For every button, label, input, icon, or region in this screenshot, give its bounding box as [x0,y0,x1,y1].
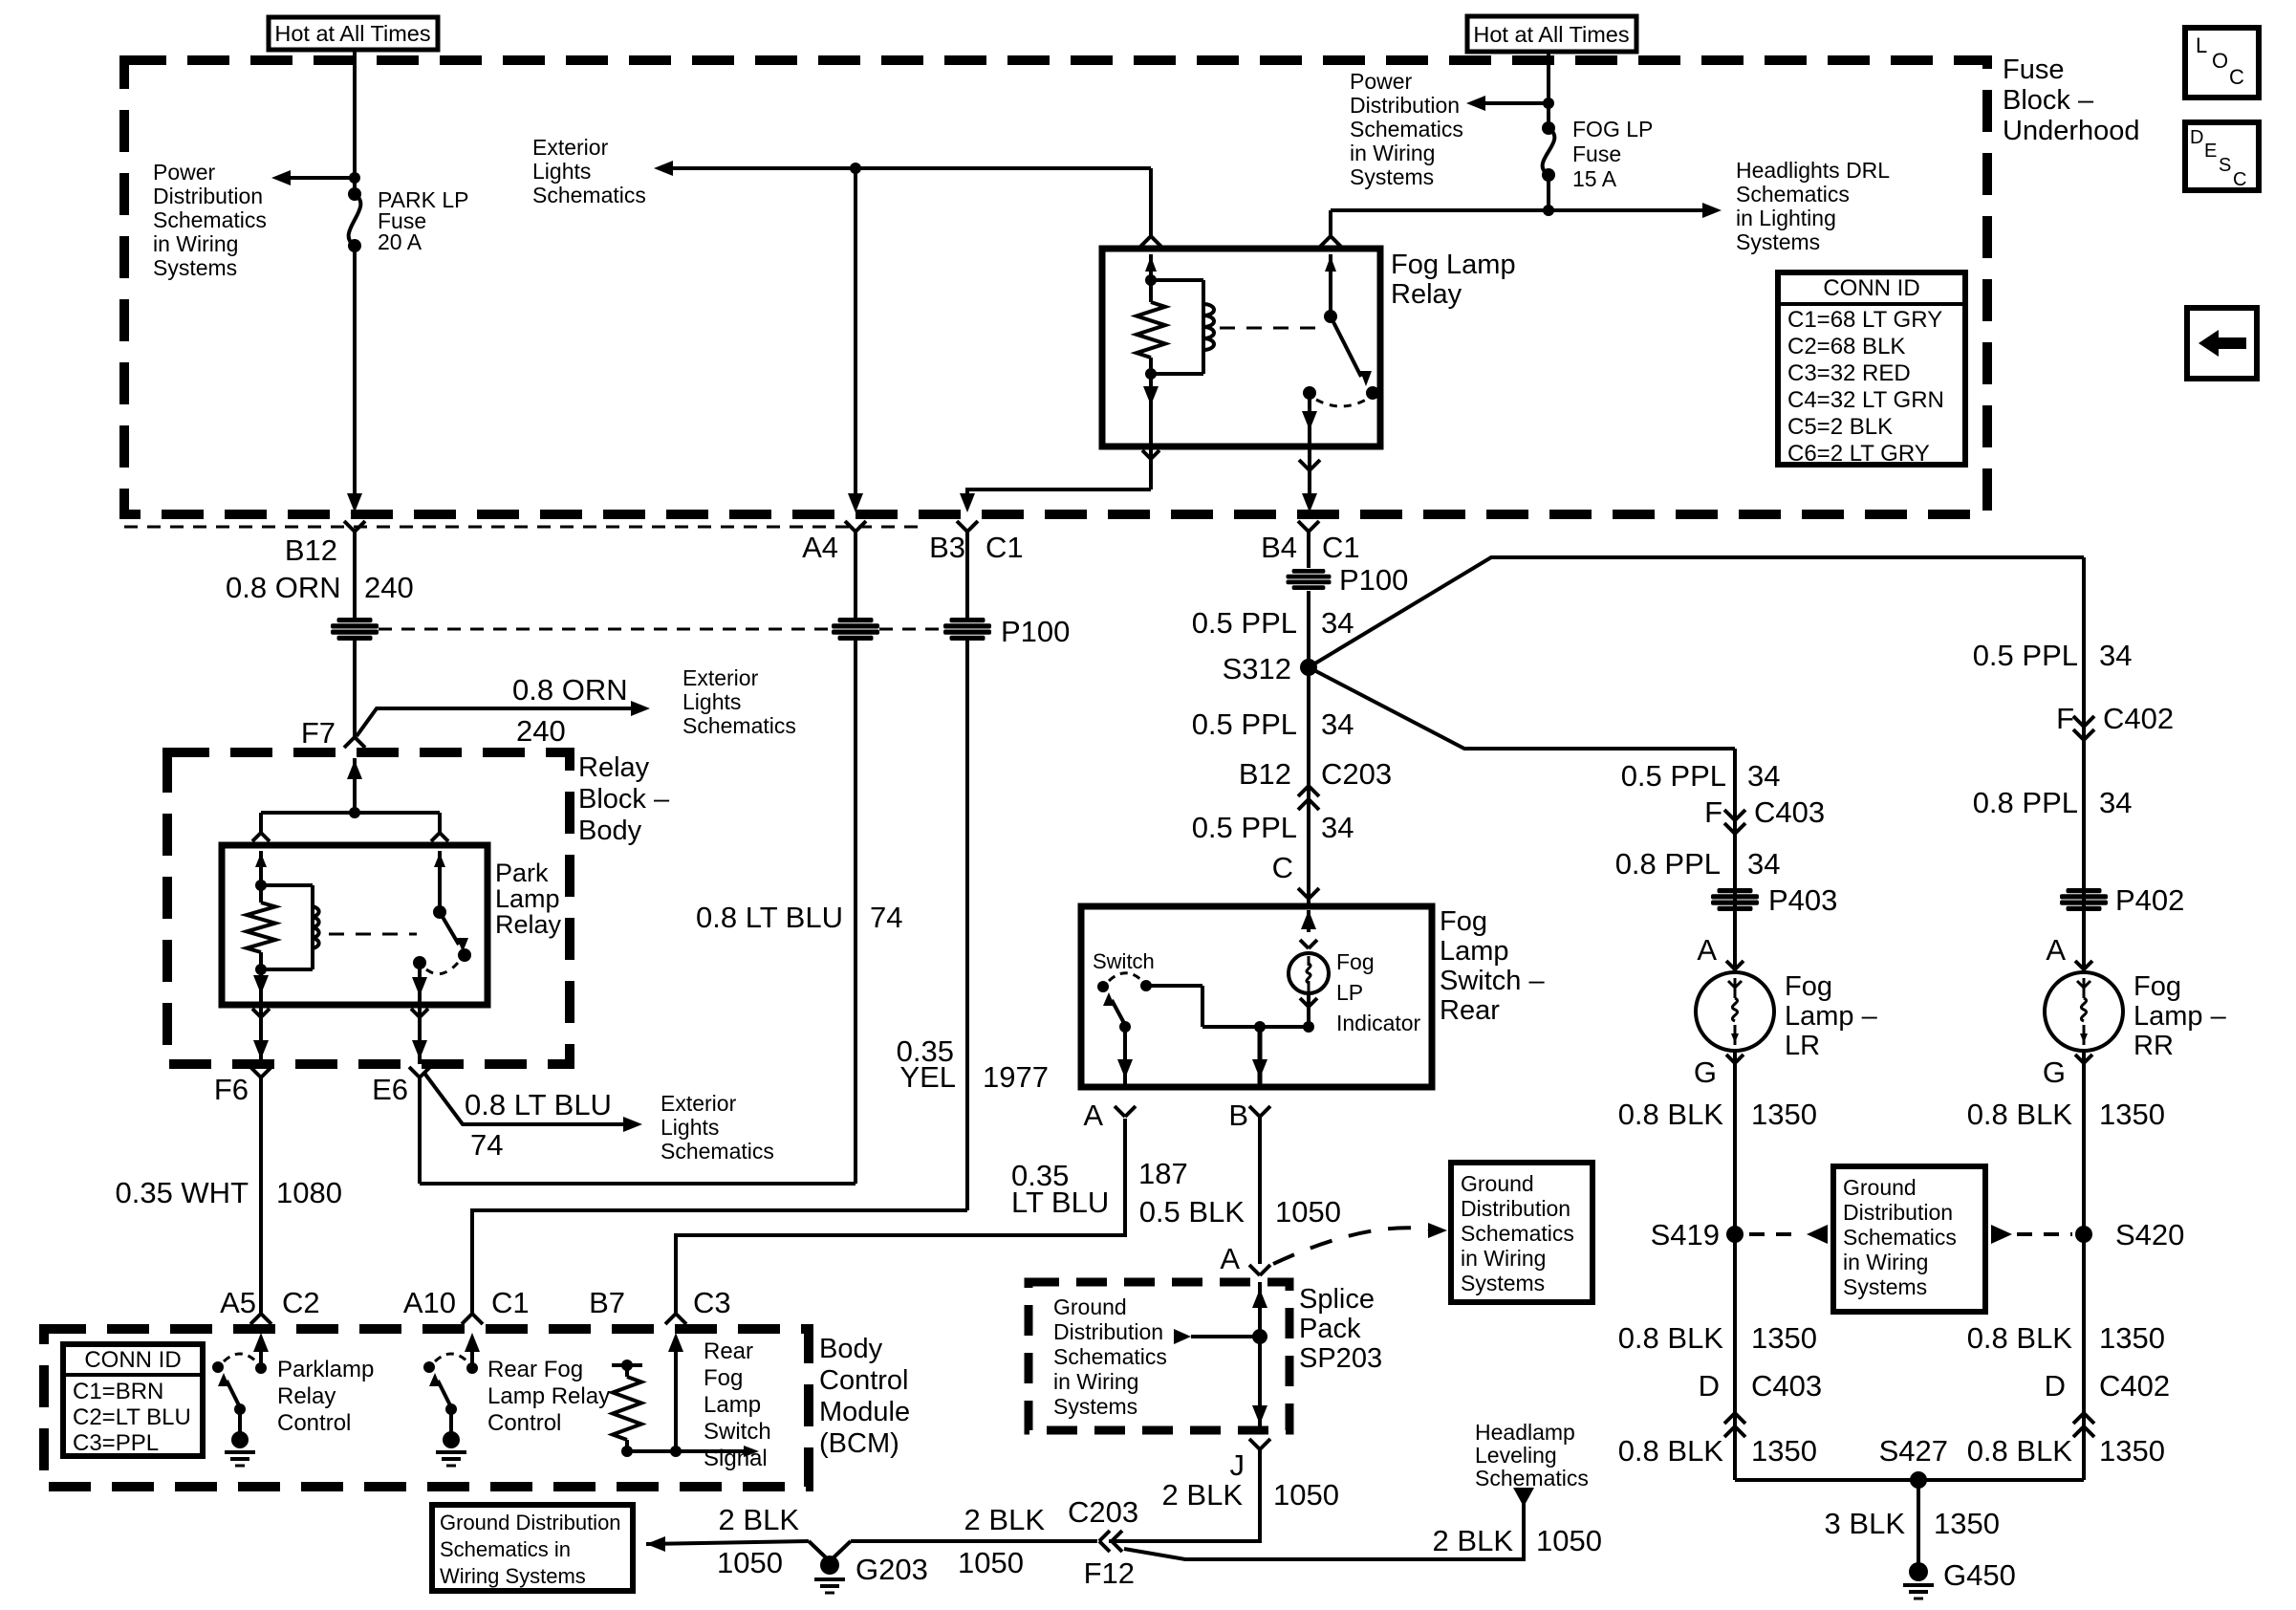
svg-text:Distribution: Distribution [153,184,263,208]
svg-text:Switch –: Switch – [1440,966,1545,996]
svg-text:Control: Control [277,1410,351,1436]
svg-text:Fuse: Fuse [1572,141,1621,166]
svg-text:Fuse: Fuse [2003,54,2064,85]
svg-text:LP: LP [1336,980,1363,1005]
svg-text:Underhood: Underhood [2003,116,2140,146]
svg-text:O: O [2212,49,2228,73]
svg-text:Exterior: Exterior [682,665,759,690]
svg-text:Lights: Lights [532,159,591,184]
svg-text:Distribution: Distribution [1843,1200,1953,1225]
svg-text:G: G [1694,1055,1717,1089]
svg-text:SP203: SP203 [1299,1343,1382,1374]
svg-text:S420: S420 [2115,1218,2184,1251]
svg-text:Schematics: Schematics [1461,1221,1574,1246]
svg-text:1050: 1050 [1273,1478,1339,1512]
svg-text:Body: Body [578,816,642,846]
svg-text:YEL: YEL [899,1060,956,1094]
svg-text:C1: C1 [986,531,1024,564]
svg-text:A5: A5 [220,1286,256,1319]
svg-text:0.8 BLK: 0.8 BLK [1967,1321,2073,1355]
svg-text:Splice: Splice [1299,1284,1375,1315]
svg-text:Schematics: Schematics [1843,1225,1957,1250]
svg-text:Power: Power [153,160,216,185]
svg-text:Systems: Systems [153,255,237,280]
svg-text:1350: 1350 [1751,1434,1817,1468]
svg-text:P403: P403 [1768,883,1837,917]
svg-text:Fog: Fog [704,1365,743,1391]
svg-text:Schematics: Schematics [682,713,796,738]
svg-text:0.8 BLK: 0.8 BLK [1967,1434,2073,1468]
svg-text:34: 34 [1321,707,1354,741]
svg-text:1350: 1350 [2099,1434,2165,1468]
svg-text:Relay: Relay [1391,279,1462,310]
svg-text:C2=68 BLK: C2=68 BLK [1787,334,1905,359]
svg-text:S: S [2219,155,2231,176]
svg-text:F7: F7 [301,716,336,750]
svg-text:A10: A10 [403,1286,456,1319]
svg-text:0.5 BLK: 0.5 BLK [1139,1195,1245,1229]
svg-text:0.8 PPL: 0.8 PPL [1615,847,1721,881]
svg-text:C6=2 LT GRY: C6=2 LT GRY [1787,441,1930,467]
svg-text:Fog: Fog [1336,949,1375,974]
svg-text:Distribution: Distribution [1461,1196,1570,1221]
svg-text:A: A [1083,1099,1103,1132]
svg-text:0.5 PPL: 0.5 PPL [1192,707,1297,741]
svg-text:C: C [1272,851,1293,884]
svg-text:in Wiring: in Wiring [1843,1250,1928,1274]
svg-text:0.5 PPL: 0.5 PPL [1192,811,1297,844]
svg-text:0.8 BLK: 0.8 BLK [1618,1321,1724,1355]
svg-text:Schematics: Schematics [153,207,267,232]
svg-text:34: 34 [1747,847,1780,881]
svg-text:Exterior: Exterior [661,1091,737,1116]
svg-text:34: 34 [1321,606,1354,640]
svg-text:Switch: Switch [704,1419,771,1445]
svg-text:Parklamp: Parklamp [277,1357,374,1382]
svg-text:C2=LT BLU: C2=LT BLU [73,1404,191,1430]
svg-text:A: A [1220,1242,1240,1275]
svg-text:C402: C402 [2099,1369,2170,1403]
svg-text:C403: C403 [1751,1369,1822,1403]
svg-text:240: 240 [364,571,414,604]
svg-text:1050: 1050 [958,1546,1024,1579]
svg-text:B: B [1228,1099,1248,1132]
svg-text:1977: 1977 [983,1060,1049,1094]
svg-text:Module: Module [819,1397,910,1427]
svg-text:74: 74 [870,901,902,934]
svg-text:Schematics: Schematics [1053,1344,1167,1369]
svg-text:Ground: Ground [1053,1295,1127,1319]
svg-text:Relay: Relay [578,752,650,783]
svg-text:Hot at All Times: Hot at All Times [274,21,430,46]
svg-text:B4: B4 [1261,531,1297,564]
svg-text:FOG LP: FOG LP [1572,117,1653,141]
svg-text:S419: S419 [1651,1218,1720,1251]
svg-text:1050: 1050 [1536,1524,1602,1557]
svg-text:1350: 1350 [2099,1098,2165,1131]
svg-text:187: 187 [1138,1157,1188,1190]
svg-text:Ground Distribution: Ground Distribution [440,1511,621,1534]
svg-text:Park: Park [495,859,549,887]
svg-text:Ground: Ground [1461,1171,1534,1196]
svg-text:in Wiring: in Wiring [1053,1369,1138,1394]
svg-text:Fog: Fog [1440,906,1487,937]
svg-text:C402: C402 [2103,702,2174,735]
svg-text:34: 34 [1321,811,1354,844]
svg-text:P100: P100 [1339,563,1408,597]
svg-text:Schematics in: Schematics in [440,1537,571,1561]
svg-text:Schematics: Schematics [661,1139,774,1164]
svg-text:Switch: Switch [1093,949,1155,973]
svg-text:L: L [2196,33,2207,57]
svg-text:C3=PPL: C3=PPL [73,1430,159,1456]
svg-text:F: F [2056,702,2074,735]
svg-text:in Wiring: in Wiring [1461,1246,1546,1271]
svg-text:Schematics: Schematics [1475,1466,1589,1490]
svg-text:1350: 1350 [2099,1321,2165,1355]
svg-text:Indicator: Indicator [1336,1011,1421,1035]
svg-text:0.8 LT BLU: 0.8 LT BLU [696,901,843,934]
svg-text:D: D [1699,1369,1720,1403]
svg-text:Rear: Rear [1440,995,1500,1026]
svg-text:1050: 1050 [1275,1195,1341,1229]
svg-text:Schematics: Schematics [1736,182,1850,207]
svg-text:0.8 BLK: 0.8 BLK [1618,1098,1724,1131]
svg-text:15 A: 15 A [1572,166,1617,191]
svg-text:A: A [1697,933,1717,967]
svg-text:A4: A4 [802,531,838,564]
svg-text:C1: C1 [491,1286,530,1319]
svg-text:C: C [2233,169,2246,190]
svg-text:Relay: Relay [495,910,562,939]
svg-text:Body: Body [819,1334,883,1364]
svg-text:20 A: 20 A [378,229,422,254]
svg-text:Signal: Signal [704,1446,768,1471]
svg-text:Lights: Lights [661,1115,719,1140]
svg-text:2 BLK: 2 BLK [964,1503,1046,1536]
svg-text:1080: 1080 [276,1176,342,1209]
svg-text:2 BLK: 2 BLK [1433,1524,1514,1557]
svg-text:Ground: Ground [1843,1175,1917,1200]
svg-text:34: 34 [2099,639,2132,672]
svg-text:C203: C203 [1068,1495,1138,1529]
svg-text:Block –: Block – [578,784,670,815]
svg-text:Block –: Block – [2003,85,2094,116]
svg-text:B7: B7 [589,1286,625,1319]
svg-text:Lights: Lights [682,689,741,714]
svg-text:Control: Control [819,1365,909,1396]
svg-text:F12: F12 [1084,1556,1135,1590]
svg-text:C1: C1 [1322,531,1360,564]
svg-text:C1=BRN: C1=BRN [73,1379,163,1404]
svg-text:E: E [2204,141,2217,162]
svg-text:G450: G450 [1943,1558,2016,1592]
svg-text:0.8 BLK: 0.8 BLK [1967,1098,2073,1131]
svg-text:D: D [2190,127,2203,148]
svg-text:Relay: Relay [277,1383,336,1409]
svg-text:Leveling: Leveling [1475,1443,1557,1468]
svg-text:Headlights DRL: Headlights DRL [1736,158,1890,183]
svg-text:C1=68 LT GRY: C1=68 LT GRY [1787,307,1942,333]
svg-text:Power: Power [1350,69,1413,94]
svg-text:Lamp –: Lamp – [2134,1001,2227,1032]
svg-text:0.8 BLK: 0.8 BLK [1618,1434,1724,1468]
svg-text:1050: 1050 [717,1546,783,1579]
svg-text:Hot at All Times: Hot at All Times [1473,22,1629,47]
svg-text:LT BLU: LT BLU [1011,1186,1109,1219]
svg-text:Lamp: Lamp [704,1392,761,1418]
svg-text:S427: S427 [1879,1434,1948,1468]
svg-text:RR: RR [2134,1031,2174,1061]
svg-text:240: 240 [516,714,566,748]
svg-text:Lamp –: Lamp – [1785,1001,1878,1032]
svg-text:CONN ID: CONN ID [1823,275,1919,301]
svg-text:Fog Lamp: Fog Lamp [1391,250,1516,280]
svg-text:in Wiring: in Wiring [153,231,238,256]
svg-text:B12: B12 [1239,757,1291,791]
svg-text:C403: C403 [1754,795,1825,829]
svg-text:Schematics: Schematics [1350,117,1463,141]
svg-text:2 BLK: 2 BLK [719,1503,800,1536]
svg-text:CONN ID: CONN ID [84,1347,181,1373]
svg-text:P100: P100 [1001,615,1070,648]
svg-text:C4=32 LT GRN: C4=32 LT GRN [1787,387,1944,413]
svg-text:2 BLK: 2 BLK [1162,1478,1244,1512]
svg-text:1350: 1350 [1934,1507,2000,1540]
svg-text:C203: C203 [1321,757,1392,791]
svg-text:Lamp Relay: Lamp Relay [487,1383,610,1409]
svg-text:0.8 ORN: 0.8 ORN [226,571,341,604]
svg-text:0.5 PPL: 0.5 PPL [1973,639,2078,672]
svg-text:Control: Control [487,1410,561,1436]
svg-text:Rear: Rear [704,1338,753,1364]
svg-text:0.35 WHT: 0.35 WHT [115,1176,249,1209]
svg-text:Schematics: Schematics [532,183,646,207]
svg-text:C3: C3 [693,1286,731,1319]
svg-text:LR: LR [1785,1031,1820,1061]
svg-text:Fog: Fog [1785,971,1832,1002]
svg-text:0.8 PPL: 0.8 PPL [1973,786,2078,819]
svg-text:C: C [2229,65,2244,89]
svg-text:1350: 1350 [1751,1098,1817,1131]
svg-text:S312: S312 [1223,652,1291,685]
svg-text:G203: G203 [856,1553,928,1586]
svg-text:1350: 1350 [1751,1321,1817,1355]
svg-text:0.5 PPL: 0.5 PPL [1621,759,1726,793]
svg-text:C2: C2 [282,1286,320,1319]
svg-text:Systems: Systems [1461,1271,1545,1295]
svg-text:C3=32 RED: C3=32 RED [1787,360,1911,386]
svg-text:P402: P402 [2115,883,2184,917]
svg-text:F: F [1704,795,1722,829]
svg-text:in Lighting: in Lighting [1736,206,1836,230]
svg-text:Wiring Systems: Wiring Systems [440,1564,586,1588]
svg-text:E6: E6 [372,1073,408,1106]
svg-text:74: 74 [470,1128,503,1162]
svg-text:F6: F6 [214,1073,249,1106]
svg-text:Distribution: Distribution [1350,93,1460,118]
svg-text:Rear Fog: Rear Fog [487,1357,583,1382]
svg-text:0.8 LT BLU: 0.8 LT BLU [465,1088,612,1121]
svg-text:Fog: Fog [2134,971,2181,1002]
svg-text:in Wiring: in Wiring [1350,141,1435,165]
svg-text:Systems: Systems [1736,229,1820,254]
svg-text:Systems: Systems [1350,164,1434,189]
svg-text:34: 34 [2099,786,2132,819]
svg-text:Pack: Pack [1299,1314,1361,1344]
svg-text:Exterior: Exterior [532,135,609,160]
svg-text:Headlamp: Headlamp [1475,1420,1575,1445]
svg-text:A: A [2046,933,2066,967]
svg-text:Lamp: Lamp [495,884,560,913]
svg-text:Systems: Systems [1053,1394,1137,1419]
svg-text:Lamp: Lamp [1440,936,1509,967]
svg-text:B12: B12 [285,533,337,567]
svg-text:34: 34 [1747,759,1780,793]
svg-text:B3: B3 [929,531,965,564]
svg-text:3 BLK: 3 BLK [1825,1507,1906,1540]
svg-text:0.8 ORN: 0.8 ORN [512,673,628,707]
svg-text:D: D [2045,1369,2066,1403]
svg-text:J: J [1230,1448,1245,1482]
svg-text:Systems: Systems [1843,1274,1927,1299]
svg-text:0.5 PPL: 0.5 PPL [1192,606,1297,640]
svg-text:C5=2 BLK: C5=2 BLK [1787,414,1893,440]
svg-text:G: G [2043,1055,2066,1089]
svg-text:(BCM): (BCM) [819,1428,899,1459]
svg-text:Distribution: Distribution [1053,1319,1163,1344]
